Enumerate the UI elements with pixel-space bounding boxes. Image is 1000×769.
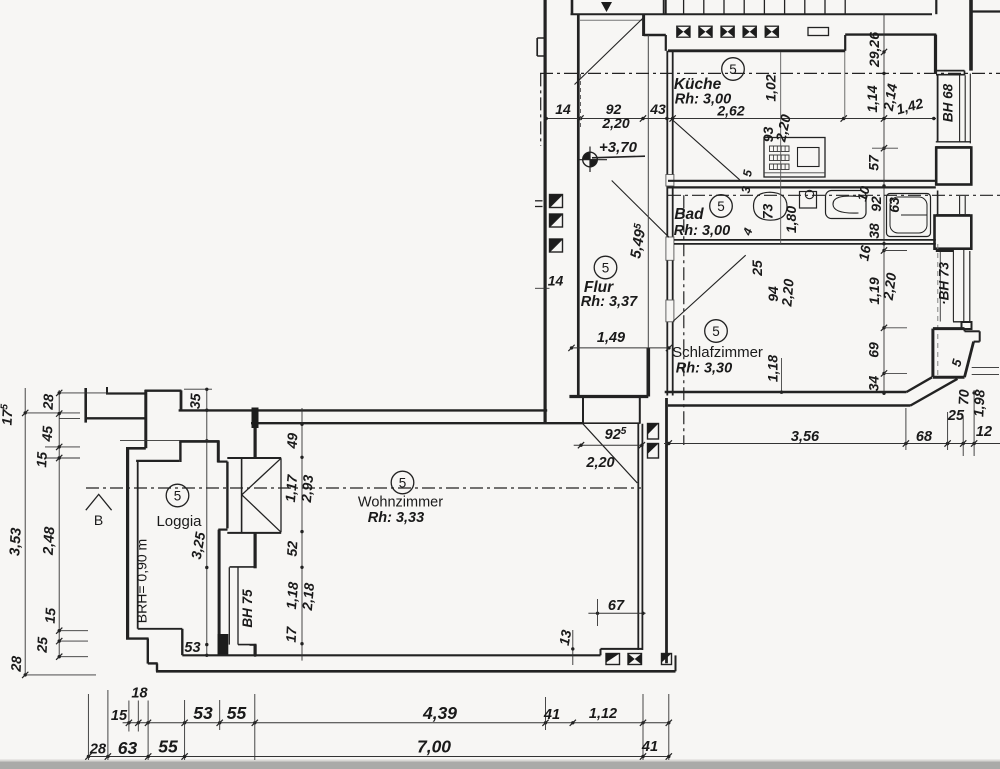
svg-text:55: 55 [158,737,178,757]
svg-text:Rh: 3,33: Rh: 3,33 [368,510,424,526]
dim 67 line [588,612,645,614]
wall kitchen top step horizontal right [845,33,936,35]
bottom chain B line [87,756,670,758]
dimension line wohnzimmer door [574,444,643,446]
plain rectangle symbol top [808,28,829,36]
svg-text:29,26: 29,26 [866,32,882,68]
wall shaft right [665,398,668,663]
svg-text:25: 25 [34,636,51,654]
wall bottom inner edge [182,654,600,656]
wall right outer upper [969,0,973,71]
wall left outer [543,0,546,423]
bidet inner [833,196,859,213]
window BH68 inner line [937,75,939,142]
svg-text:34: 34 [866,376,882,392]
dim 67 extensions [597,599,599,626]
svg-text:2,20: 2,20 [585,455,614,471]
svg-text:15: 15 [42,607,59,624]
stair tread lines [662,0,664,14]
wall kitchen right outer [934,35,937,74]
window BH73 outer line [969,251,971,322]
wall stairwell top stub [571,0,574,15]
circled 5 flur [594,256,617,279]
hatch window boxes left wall upper plan [550,195,563,208]
wall kitchen-flur (43 wall) right line [672,51,674,175]
svg-text:28: 28 [40,393,57,411]
dim vertical x302 [301,408,303,661]
wall loggia top band [179,440,219,443]
door swing triangle loggia [242,458,281,495]
stair diagonal line [575,18,644,85]
svg-text:Rh: 3,00: Rh: 3,00 [674,223,730,239]
wall jagged right vertical thick [144,390,147,449]
svg-text:1,49: 1,49 [597,330,625,346]
svg-text:73: 73 [760,204,776,220]
window BH75 lintel [230,566,257,568]
bottom chain A extensions [128,701,130,732]
svg-text:·BH 73: ·BH 73 [937,262,952,305]
wall step to door frame top [217,461,227,463]
svg-text:Rh: 3,30: Rh: 3,30 [676,361,732,377]
svg-text:16: 16 [855,244,873,262]
svg-text:5: 5 [602,260,610,275]
wall jagged top edge [145,390,182,392]
svg-text:2,20: 2,20 [601,115,629,131]
window BH68 glazing [959,75,961,142]
svg-text:Rh: 3,00: Rh: 3,00 [675,92,731,108]
wall jagged band bottom [85,417,147,419]
wall bottom right end vertical [675,655,677,671]
svg-text:38: 38 [866,223,882,239]
window BH75 glazing [228,567,230,644]
long dimension line right x884 [883,14,885,394]
wall jog above kitchen window [936,70,965,72]
svg-text:43: 43 [649,101,666,117]
wall A loggia right lower [218,530,221,656]
extension line 35 top [184,388,212,390]
window BH73 outer step [962,322,972,329]
circled 5 wohnzimmer [391,471,414,494]
svg-text:17: 17 [283,625,300,643]
wall loggia step vertical x180 [179,442,181,462]
wall loggia parapet inner horizontal [138,628,183,630]
wall wohnzimmer right double [637,424,639,650]
svg-text:92: 92 [868,196,884,212]
stair landing line [580,19,642,21]
section line horizontal kitchen [540,72,1000,74]
svg-text:2,93: 2,93 [298,474,316,504]
stair arrow triangle [601,2,612,12]
wall flur bottom [569,395,648,398]
wall jog step vertical [964,71,966,76]
extension dashed line 92 [580,74,582,128]
svg-text:Loggia: Loggia [156,513,202,530]
svg-text:Wohnzimmer: Wohnzimmer [358,495,443,511]
left chain line x59 [58,390,60,657]
svg-text:Rh: 3,37: Rh: 3,37 [581,294,638,310]
svg-text:5: 5 [717,199,725,214]
svg-text:69: 69 [866,342,882,358]
svg-text:B: B [94,512,103,528]
wall step bottom of door [218,528,227,530]
door swing bad [612,181,669,238]
wall loggia bottom step2 vertical [156,663,158,671]
bottom chain A line [123,722,669,724]
door lintel line [227,457,281,459]
svg-text:49: 49 [284,432,301,450]
chain 3,56 extensions [905,408,907,450]
masonry bowtie symbols row [677,26,690,37]
wall kitchen bottom / bad top upper line [668,180,936,182]
wall loggia bottom step2 horizontal [148,662,158,664]
svg-text:BRH= 0,90 m: BRH= 0,90 m [134,539,150,623]
svg-text:63: 63 [886,197,902,213]
svg-text:2,20: 2,20 [778,278,796,308]
svg-text:Schlafzimmer: Schlafzimmer [672,344,763,361]
wall jagged stub down [106,387,108,395]
door opening kitchen [666,175,674,187]
extension line kitchen vertical 2 [844,52,846,119]
wall kitchen-flur (43 wall) left line [666,51,668,175]
door opening schlafzimmer [666,300,674,322]
circled 5 schlafzimmer [705,320,728,343]
svg-text:35: 35 [187,393,204,410]
svg-text:53: 53 [193,703,213,723]
wall loggia inner left line [137,461,139,629]
wall bad bottom lower line [674,243,936,245]
svg-text:3,53: 3,53 [7,527,24,556]
wall top right stub [664,0,666,14]
kitchen counter bottom line [764,172,825,174]
wall top horizontal [571,13,933,15]
wall stub top right at x936 [935,0,937,14]
bottom chain B extensions [87,694,89,760]
svg-text:28: 28 [8,655,25,673]
wall jagged step vertical x180 [180,390,183,411]
window BH73 bottom connector [953,321,970,323]
svg-text:3,56: 3,56 [791,429,820,445]
dimension line 1,49 [570,347,669,349]
svg-text:1,12: 1,12 [589,706,617,722]
tick lines right dim [872,147,898,149]
kitchen hatch bars [770,146,790,152]
svg-text:7,00: 7,00 [417,737,451,757]
toilet square [800,192,817,209]
left chain line x25 [24,388,26,675]
wall loggia outer left [126,448,129,639]
svg-text:45: 45 [39,425,56,443]
svg-text:2,18: 2,18 [299,582,317,612]
svg-text:+3,70: +3,70 [599,139,638,156]
svg-text:1,19: 1,19 [866,277,882,304]
svg-text:4,39: 4,39 [422,703,457,723]
door swing kitchen [673,120,740,180]
shaft wall thin line [647,35,649,348]
shaft wall thick lower [646,348,650,397]
tick line 14 [535,287,550,289]
wall upper-left stub vertical [84,388,87,423]
svg-text:52: 52 [284,540,301,557]
dim vertical x206 [206,389,208,656]
extension flur vertical line [648,347,650,349]
window bad glazing [959,196,961,214]
window bad inner line [937,191,939,216]
wall loggia inner top line [136,460,179,462]
window BH73 glazing [952,250,954,322]
svg-text:12: 12 [976,424,992,440]
outer corner top right horizontal [970,10,1000,12]
svg-text:18: 18 [131,686,148,702]
wall bad bottom upper line [674,239,936,241]
neighbour wall ticks left [535,200,543,202]
svg-text:2,48: 2,48 [41,525,59,556]
svg-text:14: 14 [548,273,564,289]
svg-text:41: 41 [641,739,658,755]
door opening bad [666,237,674,260]
extension dashed through bay [937,244,939,377]
wall bottom inner jog vertical [600,649,602,655]
pier between kitchen and bad windows [936,148,971,185]
wall A widened bottom part [218,634,229,656]
wall kitchen top-left vertical [665,35,667,51]
window BH68 sill lines [936,141,971,143]
window BH75 sill [238,644,257,646]
svg-text:63: 63 [118,738,138,758]
wall kitchen top step horizontal left [644,34,666,36]
section line horizontal bad [668,194,1000,196]
bidet outer [826,191,867,219]
svg-text:1,14: 1,14 [864,85,880,112]
scanner gray bar bottom [0,762,1000,769]
dimension line 3,56 chain [664,443,1000,445]
svg-text:53: 53 [184,640,200,656]
pier lower below door [254,533,257,568]
wall notch left [536,38,538,56]
svg-text:14: 14 [555,101,571,117]
left chain connectors [59,392,110,394]
pier upper between door and wall [254,425,257,459]
bathtub outer [887,194,931,237]
circled 5 bad [710,195,733,218]
wall stairwell right [642,14,645,36]
washbasin [754,192,788,220]
wall flur left [577,15,580,396]
window bad sill [936,214,970,216]
pier below bad window [935,216,972,249]
section line vertical schlafzimmer [683,195,685,445]
svg-text:68: 68 [916,429,933,445]
svg-text:67: 67 [608,598,625,614]
svg-text:15: 15 [111,708,128,724]
toilet circle [805,190,813,198]
section line vertical left [540,73,542,146]
svg-text:13: 13 [556,628,574,646]
wall schlafzimmer bay diagonal lower [911,379,958,406]
niche verticals flur-wohnzimmer [582,397,584,424]
window BH68 outer line [969,74,971,144]
svg-text:5: 5 [174,488,182,503]
svg-text:5: 5 [729,62,737,77]
wall A loggia right upper [217,440,220,462]
wall bottom inner jog horizontal [601,648,643,650]
dim extension y440 [120,439,219,441]
door swing schlafzimmer [673,255,746,321]
door frame second line [241,458,243,533]
kitchen counter [764,138,825,178]
door sill line [227,532,281,534]
window BH73 top connector [936,250,953,252]
svg-text:Bad: Bad [674,206,704,223]
extension line 1,18 schlafzimmer [781,358,783,393]
svg-text:1,02: 1,02 [763,74,779,101]
section line horizontal wohnzimmer [86,487,641,489]
dimension line y118 [544,118,936,120]
wall bottom outer edge [156,670,676,673]
svg-text:28: 28 [89,742,107,758]
niche bottom line [583,422,640,424]
wall kitchen top [668,49,845,52]
kitchen counter inner square [798,148,820,167]
pier bottom right of BH75 [254,645,257,656]
hatch window boxes shaft [648,424,659,440]
wall wohnzimmer top lower line [251,422,583,424]
wall loggia bottom step1 vertical [147,639,149,664]
wall kitchen step down vertical [844,35,846,51]
svg-text:55: 55 [227,703,247,723]
bay erker outline [933,327,965,330]
wall schlafzimmer bay diagonal upper [907,377,933,392]
svg-text:5: 5 [399,475,407,490]
circled 5 loggia [166,484,189,507]
svg-text:1,80: 1,80 [783,206,799,233]
wall loggia parapet inner vertical [181,629,183,655]
wall kitchen bottom / bad top lower line [668,186,936,188]
svg-text:41: 41 [543,707,560,723]
door frame left line [226,462,228,529]
svg-text:57: 57 [866,154,882,171]
wall jagged second line [106,392,147,394]
wall schlafzimmer bottom upper [665,391,907,393]
window BH73 inner line [939,250,941,322]
svg-text:5: 5 [712,324,720,339]
wall loggia bottom step1 horizontal [126,637,149,639]
door swing wohnzimmer [583,424,638,483]
extension line kitchen vertical [780,52,782,244]
bathtub inner [890,197,927,233]
svg-text:15: 15 [33,451,50,468]
level marker +3,70 [583,152,598,167]
bay side ticks [972,367,999,369]
wall loggia outer corner horizontal [126,447,146,450]
svg-text:BH 75: BH 75 [240,589,255,628]
section marker triangle B [86,494,112,510]
wall wohnzimmer top upper line [179,409,548,411]
svg-text:Küche: Küche [674,76,722,93]
svg-text:1,98: 1,98 [970,389,987,417]
wall bottom small step left [254,644,256,657]
pier block wohnzimmer corner [252,408,259,429]
svg-text:1,18: 1,18 [765,355,781,382]
svg-text:70: 70 [955,389,972,406]
wall schlafzimmer bottom lower [668,404,911,406]
underline +3,70 [592,156,645,158]
bathtub center line [901,214,927,216]
circled 5 kueche [722,58,745,81]
svg-text:BH 68: BH 68 [941,83,956,122]
hatch boxes bottom wall [606,654,620,665]
svg-text:25: 25 [749,260,765,277]
dot 1,18 extension [780,391,783,394]
svg-text:25: 25 [947,408,965,424]
